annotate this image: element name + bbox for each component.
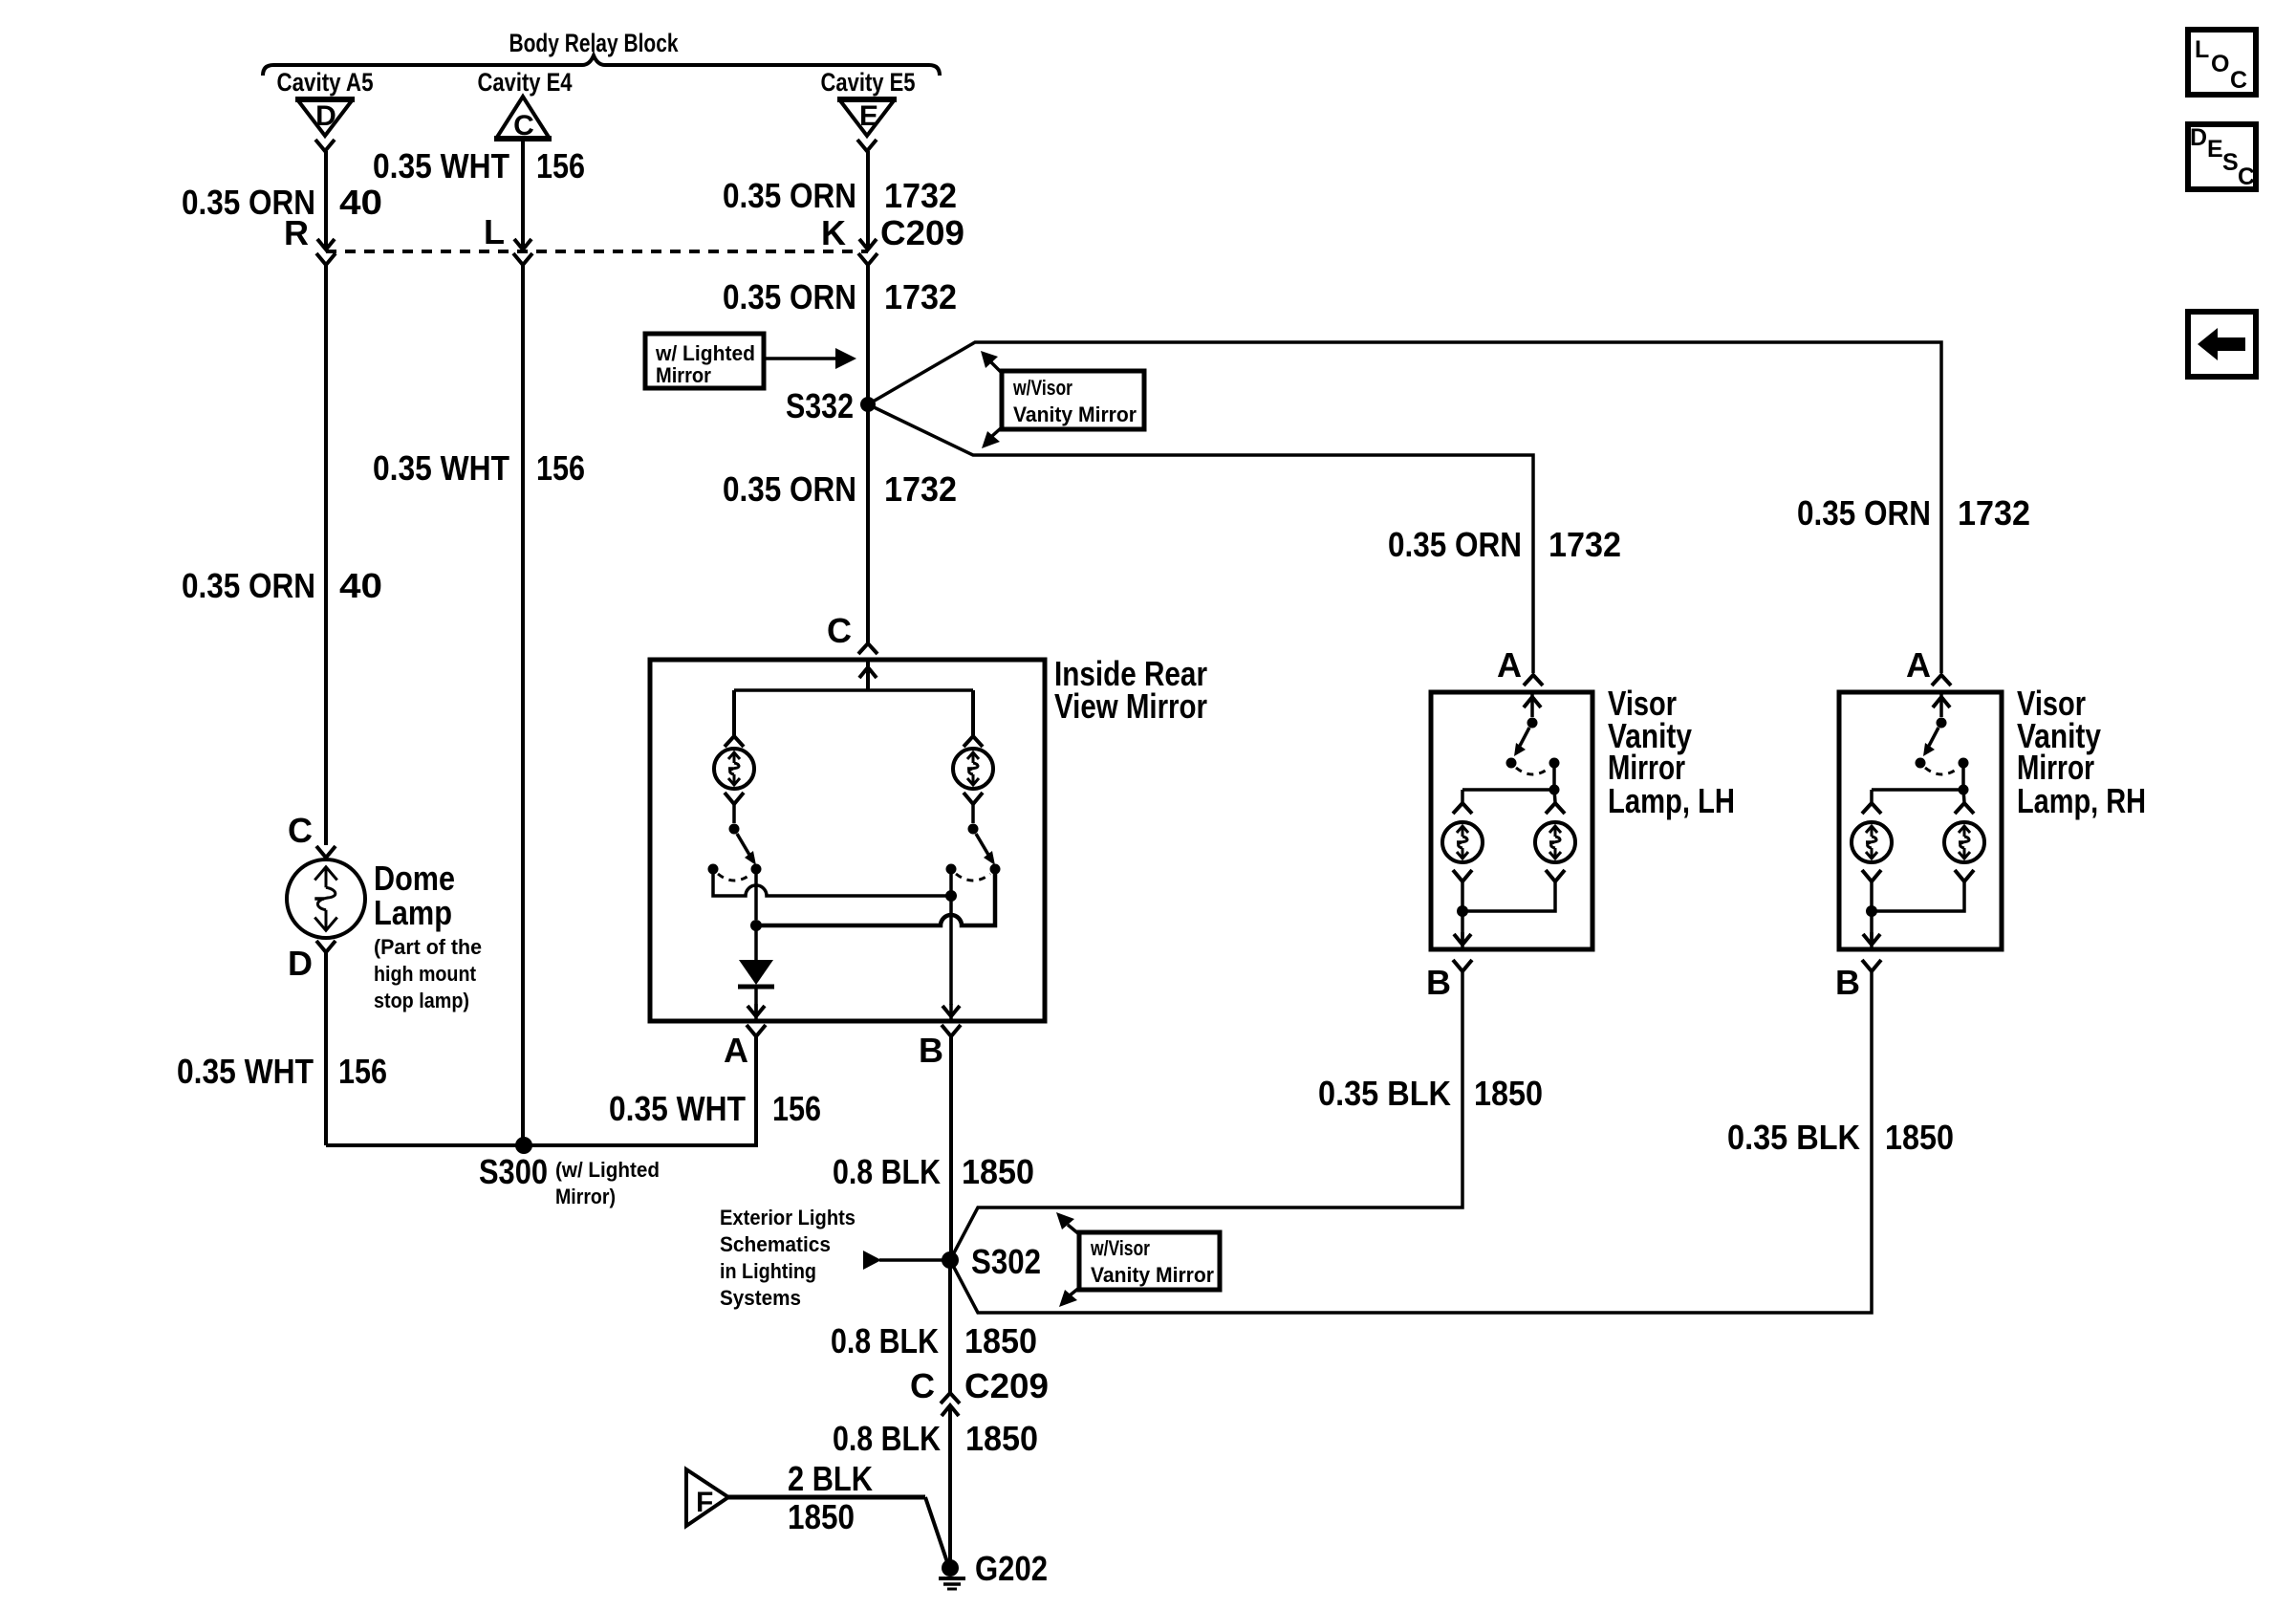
svg-text:B: B bbox=[1426, 963, 1451, 1002]
svg-text:S302: S302 bbox=[971, 1242, 1041, 1281]
fork below right lamp bbox=[964, 793, 983, 804]
svg-text:D: D bbox=[315, 100, 336, 132]
svg-text:D: D bbox=[2190, 124, 2207, 151]
visor wire from right contact bbox=[1552, 768, 1556, 790]
thick bus from right switch contact with hop bbox=[756, 874, 995, 925]
svg-text:A: A bbox=[1906, 645, 1931, 685]
svg-text:0.8 BLK: 0.8 BLK bbox=[833, 1419, 941, 1458]
svg-text:L: L bbox=[2195, 36, 2209, 63]
svg-text:1850: 1850 bbox=[962, 1152, 1034, 1191]
svg-text:C: C bbox=[2238, 163, 2255, 190]
visor switch contacts bbox=[1506, 758, 1517, 769]
wire from left switch NO contact down bbox=[754, 874, 758, 920]
svg-text:0.35 ORN: 0.35 ORN bbox=[723, 277, 856, 316]
callout box w/Visor Vanity Mirror lower bbox=[1079, 1232, 1220, 1290]
svg-text:1732: 1732 bbox=[884, 176, 957, 215]
lamp left in mirror bbox=[714, 749, 754, 789]
connector triangle D (Cavity A5) bbox=[295, 97, 355, 102]
svg-text:L: L bbox=[484, 212, 505, 251]
arrow from w/Visor box to upper branch bbox=[990, 361, 1002, 373]
visor internal bus bbox=[1872, 788, 1963, 792]
visor right lamp bbox=[1963, 790, 1964, 802]
arrow from w/Visor box to lower branch bbox=[992, 427, 1002, 436]
svg-text:w/ Lighted: w/ Lighted bbox=[655, 341, 755, 365]
svg-text:stop lamp): stop lamp) bbox=[374, 989, 469, 1012]
lamp right in mirror bbox=[953, 749, 993, 789]
connector symbol at C209 wire K bbox=[859, 239, 877, 250]
svg-text:1732: 1732 bbox=[884, 469, 957, 509]
visor left lamp bbox=[1461, 790, 1464, 802]
svg-text:156: 156 bbox=[338, 1052, 387, 1091]
visor switch contacts bbox=[1916, 758, 1926, 769]
svg-text:0.35 ORN: 0.35 ORN bbox=[1797, 493, 1931, 533]
svg-text:Vanity Mirror: Vanity Mirror bbox=[1013, 402, 1137, 426]
svg-text:C: C bbox=[513, 110, 534, 141]
wire S302 down to connector C209 pin C bbox=[948, 1260, 952, 1393]
dome lamp bbox=[287, 859, 365, 938]
visor internal entry arrow bbox=[1530, 692, 1534, 717]
arrow from lower w/Visor box to upper branch bbox=[1068, 1225, 1079, 1234]
dashed line connector C209 bbox=[326, 250, 868, 253]
svg-text:high mount: high mount bbox=[374, 962, 477, 986]
component box Visor Vanity Mirror Lamp LH bbox=[1431, 692, 1592, 949]
fork below triangle E bbox=[857, 140, 877, 151]
connector triangle E (Cavity E5) bbox=[837, 97, 897, 102]
svg-text:S: S bbox=[2222, 149, 2239, 176]
wire S332 to inside rear view mirror pin C bbox=[866, 404, 870, 642]
svg-text:S332: S332 bbox=[786, 386, 854, 425]
svg-text:0.35 BLK: 0.35 BLK bbox=[1727, 1118, 1860, 1157]
svg-text:1732: 1732 bbox=[884, 277, 957, 316]
svg-text:Cavity A5: Cavity A5 bbox=[277, 68, 374, 97]
svg-text:0.35 WHT: 0.35 WHT bbox=[177, 1052, 314, 1091]
junction dot mirror mid bus bbox=[945, 890, 957, 902]
visor lamp output junction bbox=[1457, 905, 1468, 917]
visor right lamp bbox=[1554, 790, 1555, 802]
switch left contacts bbox=[708, 864, 719, 875]
switch left in mirror bbox=[729, 824, 740, 835]
svg-text:Mirror: Mirror bbox=[656, 363, 711, 387]
connector symbol at C209 wire L bbox=[514, 239, 531, 250]
pin B of inside rear view mirror bbox=[942, 1025, 961, 1036]
svg-text:S300: S300 bbox=[479, 1152, 548, 1191]
pin B of visor lamp RH bbox=[1862, 960, 1881, 971]
branch wire from visor lamp RH pin B to S302 bbox=[950, 971, 1872, 1313]
svg-text:Lamp: Lamp bbox=[374, 893, 452, 932]
wire E5 continues down to S332 bbox=[866, 265, 870, 404]
svg-text:Vanity Mirror: Vanity Mirror bbox=[1091, 1263, 1214, 1287]
wire from left switch NC contact across with hop bbox=[713, 874, 951, 896]
svg-text:1850: 1850 bbox=[964, 1321, 1037, 1360]
svg-text:Cavity E5: Cavity E5 bbox=[821, 68, 916, 97]
svg-text:0.35 BLK: 0.35 BLK bbox=[1318, 1074, 1451, 1113]
svg-text:Dome: Dome bbox=[374, 859, 455, 898]
svg-text:1732: 1732 bbox=[1549, 525, 1621, 564]
svg-text:1850: 1850 bbox=[788, 1497, 855, 1536]
svg-text:Mirror): Mirror) bbox=[555, 1185, 616, 1208]
arrow pointer to S302 bbox=[863, 1251, 881, 1270]
diode in mirror A branch bbox=[754, 925, 758, 960]
svg-text:w/Visor: w/Visor bbox=[1012, 376, 1072, 400]
svg-text:(Part of the: (Part of the bbox=[374, 935, 482, 959]
wire right switch inner contact down to B branch bbox=[949, 874, 953, 896]
svg-text:0.35 WHT: 0.35 WHT bbox=[373, 448, 509, 488]
fork below triangle D bbox=[315, 140, 335, 151]
visor internal bus bbox=[1462, 788, 1554, 792]
svg-text:156: 156 bbox=[536, 448, 585, 488]
arrow B branch to box bottom bbox=[942, 1006, 960, 1016]
visor lamp output junction bbox=[1866, 905, 1877, 917]
internal wire left lamp branch bbox=[732, 690, 736, 735]
splice S302 bbox=[942, 1251, 959, 1269]
svg-text:Systems: Systems bbox=[720, 1286, 801, 1310]
svg-text:C: C bbox=[827, 611, 852, 650]
svg-text:0.35 ORN: 0.35 ORN bbox=[723, 176, 856, 215]
svg-text:View Mirror: View Mirror bbox=[1054, 686, 1207, 726]
svg-text:B: B bbox=[1835, 963, 1860, 1002]
fork below left lamp bbox=[725, 793, 744, 804]
visor internal switch bbox=[1937, 718, 1947, 729]
component box Visor Vanity Mirror Lamp RH bbox=[1839, 692, 2002, 949]
svg-text:0.35 ORN: 0.35 ORN bbox=[182, 566, 315, 605]
svg-text:(w/ Lighted: (w/ Lighted bbox=[555, 1158, 660, 1182]
svg-text:C: C bbox=[2230, 67, 2247, 94]
svg-text:in Lighting: in Lighting bbox=[720, 1259, 816, 1283]
switch right in mirror bbox=[968, 824, 979, 835]
svg-text:0.35 WHT: 0.35 WHT bbox=[373, 146, 509, 185]
svg-text:G202: G202 bbox=[975, 1549, 1048, 1588]
svg-text:0.35 WHT: 0.35 WHT bbox=[609, 1089, 746, 1128]
svg-text:B: B bbox=[919, 1031, 943, 1070]
callout box w/Visor Vanity Mirror upper bbox=[1002, 371, 1144, 429]
icon box LOC bbox=[2188, 30, 2256, 95]
svg-text:C: C bbox=[910, 1366, 935, 1405]
wire A5 continues down to dome lamp bbox=[324, 265, 328, 845]
branch wire from visor lamp LH pin B to S302 bbox=[950, 971, 1462, 1260]
connector symbol at C209 wire R bbox=[317, 239, 335, 250]
ground G202 bbox=[942, 1559, 959, 1577]
branch wire from S332 to visor vanity mirror lamp RH pin A bbox=[868, 342, 1941, 673]
svg-text:0.8 BLK: 0.8 BLK bbox=[833, 1152, 941, 1191]
svg-text:E: E bbox=[859, 100, 878, 132]
svg-text:2 BLK: 2 BLK bbox=[788, 1459, 873, 1498]
component box Inside Rear View Mirror bbox=[650, 660, 1045, 1021]
svg-text:Exterior Lights: Exterior Lights bbox=[720, 1206, 856, 1229]
pin B of visor lamp LH bbox=[1453, 960, 1472, 971]
junction dot left lamp output bbox=[750, 920, 762, 931]
wire C pin into mirror internal bus bbox=[866, 660, 870, 690]
wire 0.35 WHT 156 from cavity E4 bbox=[521, 141, 525, 247]
pin A of inside rear view mirror bbox=[747, 1025, 766, 1036]
svg-text:D: D bbox=[288, 944, 313, 983]
svg-text:156: 156 bbox=[772, 1089, 821, 1128]
internal bus of mirror bbox=[734, 688, 973, 692]
svg-text:Lamp, RH: Lamp, RH bbox=[2017, 781, 2146, 820]
wire 2 BLK 1850 from F to G202 bbox=[728, 1495, 925, 1500]
svg-text:40: 40 bbox=[339, 183, 382, 222]
grommet F bbox=[686, 1469, 728, 1526]
svg-text:0.35 ORN: 0.35 ORN bbox=[723, 469, 856, 509]
svg-text:1850: 1850 bbox=[965, 1419, 1038, 1458]
callout box w/ Lighted Mirror bbox=[645, 334, 764, 388]
wire dome lamp D down bbox=[324, 952, 328, 1145]
branch wire from S332 to visor vanity mirror lamp LH pin A bbox=[868, 404, 1533, 673]
visor output wire to pin B bbox=[1870, 911, 1874, 945]
wire pin B down to S302 bbox=[949, 1036, 953, 1252]
arrow from lower w/Visor box to lower branch bbox=[1070, 1288, 1079, 1295]
visor internal switch bbox=[1527, 718, 1538, 729]
visor output wire to pin B bbox=[1461, 911, 1464, 945]
internal wire right lamp branch bbox=[971, 690, 975, 735]
svg-text:A: A bbox=[1497, 645, 1522, 685]
svg-text:C: C bbox=[288, 811, 313, 850]
svg-text:0.35 ORN: 0.35 ORN bbox=[1388, 525, 1522, 564]
connector triangle C (Cavity E4) bbox=[494, 136, 552, 141]
svg-text:F: F bbox=[696, 1487, 713, 1518]
svg-text:Lamp, LH: Lamp, LH bbox=[1608, 781, 1735, 820]
connector symbol C209 lower bbox=[941, 1393, 960, 1403]
svg-text:C209: C209 bbox=[880, 213, 964, 252]
svg-text:40: 40 bbox=[339, 566, 382, 605]
svg-text:R: R bbox=[284, 213, 309, 252]
icon box back arrow bbox=[2188, 312, 2256, 377]
arrow from w/ Lighted Mirror box to wire bbox=[764, 357, 839, 360]
svg-text:0.8 BLK: 0.8 BLK bbox=[831, 1321, 939, 1360]
svg-text:O: O bbox=[2211, 51, 2229, 77]
wire 0.35 ORN 1732 from cavity E5 bbox=[866, 151, 870, 247]
svg-text:C209: C209 bbox=[964, 1366, 1049, 1405]
svg-text:1850: 1850 bbox=[1885, 1118, 1954, 1157]
wire 0.35 ORN 40 from cavity A5 to connector C209 bbox=[324, 151, 328, 247]
svg-text:K: K bbox=[821, 213, 846, 252]
svg-text:156: 156 bbox=[536, 146, 585, 185]
splice S300 bbox=[515, 1137, 532, 1154]
wire E4 continues down to S300 bbox=[521, 265, 525, 1143]
svg-text:w/Visor: w/Visor bbox=[1090, 1236, 1150, 1260]
visor wire from right contact bbox=[1961, 768, 1965, 790]
svg-text:Cavity E4: Cavity E4 bbox=[478, 68, 573, 97]
icon box DESC bbox=[2188, 124, 2256, 189]
svg-text:1732: 1732 bbox=[1958, 493, 2030, 533]
visor internal entry arrow bbox=[1939, 692, 1943, 717]
svg-text:A: A bbox=[724, 1031, 748, 1070]
fork below dome lamp bbox=[316, 941, 336, 952]
svg-text:Schematics: Schematics bbox=[720, 1232, 831, 1256]
svg-text:1850: 1850 bbox=[1474, 1074, 1543, 1113]
svg-text:E: E bbox=[2207, 136, 2223, 163]
switch right contacts bbox=[946, 864, 957, 875]
wire pin A down and left to S300 bbox=[326, 1036, 756, 1145]
brace Body Relay Block bbox=[263, 55, 940, 76]
visor left lamp bbox=[1870, 790, 1874, 802]
